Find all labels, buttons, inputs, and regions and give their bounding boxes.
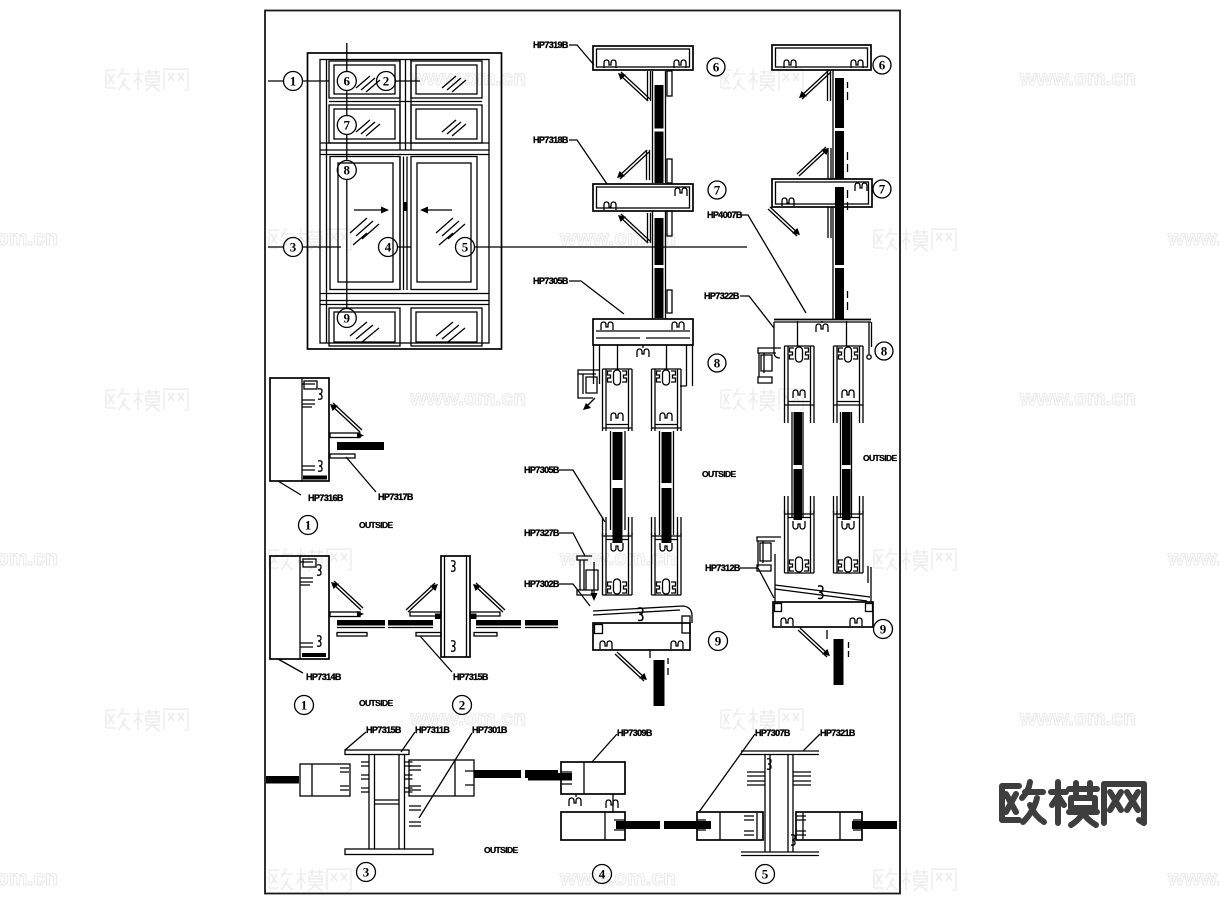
svg-text:HP7307B: HP7307B <box>755 728 791 738</box>
svg-text:1: 1 <box>290 74 297 89</box>
svg-text:HP7302B: HP7302B <box>524 579 560 589</box>
svg-text:OUTSIDE: OUTSIDE <box>359 698 394 708</box>
svg-text:7: 7 <box>879 182 886 197</box>
svg-text:4: 4 <box>385 240 392 255</box>
svg-text:www.om.cn: www.om.cn <box>0 867 58 890</box>
svg-text:www.om.cn: www.om.cn <box>409 387 526 410</box>
svg-text:OUTSIDE: OUTSIDE <box>863 453 898 463</box>
svg-text:9: 9 <box>715 634 722 649</box>
svg-text:www.om.cn: www.om.cn <box>1167 867 1220 890</box>
svg-text:OUTSIDE: OUTSIDE <box>484 845 519 855</box>
svg-text:OUTSIDE: OUTSIDE <box>702 469 737 479</box>
svg-text:HP7309B: HP7309B <box>617 728 653 738</box>
svg-text:www.om.cn: www.om.cn <box>0 547 58 570</box>
svg-text:HP7318B: HP7318B <box>533 135 569 145</box>
svg-text:HP7305B: HP7305B <box>533 276 569 286</box>
svg-text:OUTSIDE: OUTSIDE <box>359 520 394 530</box>
svg-text:1: 1 <box>301 698 308 713</box>
svg-text:HP7315B: HP7315B <box>366 725 402 735</box>
svg-text:8: 8 <box>714 356 721 371</box>
svg-text:6: 6 <box>713 60 720 75</box>
svg-text:7: 7 <box>344 118 351 133</box>
svg-text:5: 5 <box>462 240 469 255</box>
svg-text:HP7314B: HP7314B <box>306 672 342 682</box>
svg-text:HP4007B: HP4007B <box>707 210 743 220</box>
svg-text:HP7316B: HP7316B <box>308 493 344 503</box>
svg-text:HP7327B: HP7327B <box>524 528 560 538</box>
svg-text:www.om.cn: www.om.cn <box>1167 227 1220 250</box>
svg-text:HP7317B: HP7317B <box>378 492 414 502</box>
svg-text:www.om.cn: www.om.cn <box>1019 387 1136 410</box>
svg-text:1: 1 <box>305 518 312 533</box>
svg-text:8: 8 <box>344 163 351 178</box>
svg-text:3: 3 <box>363 865 370 880</box>
svg-text:3: 3 <box>290 240 297 255</box>
svg-text:HP7301B: HP7301B <box>472 725 508 735</box>
svg-text:www.om.cn: www.om.cn <box>1167 547 1220 570</box>
svg-text:HP7319B: HP7319B <box>533 40 569 50</box>
svg-text:HP7312B: HP7312B <box>705 563 741 573</box>
svg-text:4: 4 <box>599 867 606 882</box>
svg-text:www.om.cn: www.om.cn <box>0 227 58 250</box>
svg-text:HP7305B: HP7305B <box>524 465 560 475</box>
svg-text:8: 8 <box>881 344 888 359</box>
svg-text:7: 7 <box>714 183 721 198</box>
svg-text:5: 5 <box>762 867 769 882</box>
svg-text:HP7311B: HP7311B <box>415 725 450 735</box>
svg-text:www.om.cn: www.om.cn <box>1019 707 1136 730</box>
svg-text:2: 2 <box>383 74 390 89</box>
svg-text:2: 2 <box>459 698 466 713</box>
svg-text:HP7315B: HP7315B <box>453 672 489 682</box>
svg-text:HP7322B: HP7322B <box>704 291 740 301</box>
svg-text:9: 9 <box>880 622 887 637</box>
svg-text:9: 9 <box>344 311 351 326</box>
svg-text:6: 6 <box>879 58 886 73</box>
svg-text:www.om.cn: www.om.cn <box>1019 67 1136 90</box>
svg-text:www.om.cn: www.om.cn <box>409 67 526 90</box>
svg-text:HP7321B: HP7321B <box>820 728 856 738</box>
svg-text:www.om.cn: www.om.cn <box>559 867 676 890</box>
svg-text:6: 6 <box>344 74 351 89</box>
